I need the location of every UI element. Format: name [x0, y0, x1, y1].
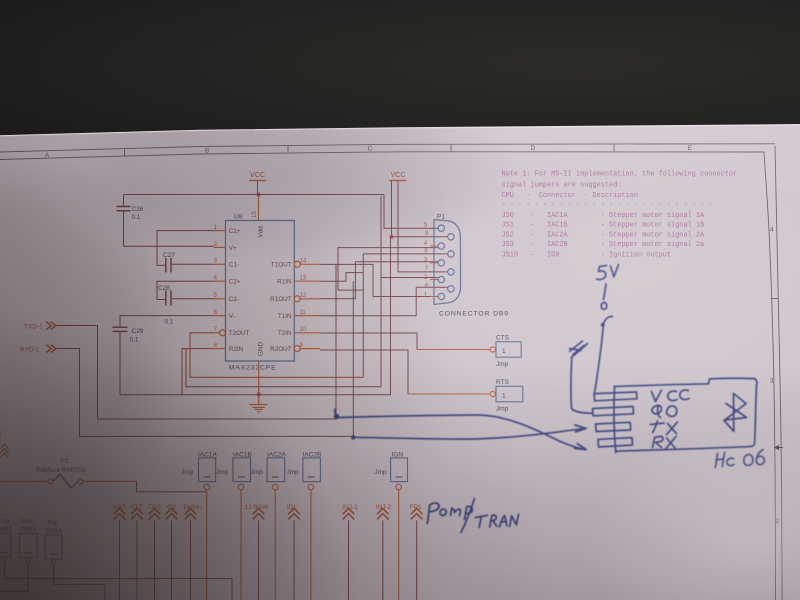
- handwritten wire from 5V: [604, 284, 606, 300]
- wire CTS: [417, 349, 490, 351]
- border frame right outer line: [775, 146, 782, 600]
- handwritten label TX inside module: [651, 421, 678, 435]
- note text line 1: [502, 171, 738, 179]
- chip pin labels left: [229, 228, 250, 353]
- pin 9 bubble and stub: [294, 346, 320, 352]
- frame right tick 2: [775, 447, 782, 449]
- note text line JS2: [502, 231, 705, 239]
- signal FP1: [410, 504, 423, 600]
- capacitor C27: [157, 252, 214, 273]
- wire T2IN to CTS net: [320, 333, 417, 350]
- pin 11 stub: [294, 315, 320, 317]
- frame letter B: [205, 148, 209, 155]
- border frame top line 2: [0, 152, 764, 160]
- wire VCC2 to pin7: [398, 181, 448, 272]
- jumper IAC2B: [287, 452, 322, 600]
- frame letter A: [45, 152, 50, 159]
- wire R1IN branch down to RXD net: [56, 281, 353, 436]
- handwritten wire blob to RX arrow (crossing): [339, 415, 587, 450]
- ground stub from chip: [258, 361, 260, 395]
- handwritten label VCC inside module: [652, 390, 690, 402]
- wire RTS: [408, 393, 490, 395]
- jumper IGN: [374, 452, 407, 600]
- pin 14 bubble and stub: [294, 261, 320, 267]
- handwritten bluetooth symbol: [724, 394, 747, 432]
- signal TachIn: [182, 504, 202, 600]
- handwritten junction dot on RXD wire: [351, 435, 355, 439]
- frame right tick 1: [771, 298, 778, 300]
- wire V- pin6 to C29: [120, 316, 214, 326]
- port (left edge, rotated label): [0, 430, 9, 458]
- frame letter E: [688, 145, 693, 152]
- signal CLT: [131, 504, 143, 600]
- border frame right inner line: [764, 152, 776, 600]
- jumper IAC2A: [251, 452, 287, 600]
- border frame top line 1: [0, 144, 775, 152]
- jumper SPR2: [0, 519, 232, 600]
- wire VCC rail: [124, 194, 385, 196]
- handwritten module HC06 box outline: [614, 378, 757, 451]
- power symbol VCC (left): [249, 172, 266, 195]
- capacitor C29: [113, 327, 144, 395]
- handwritten Pomp/TRAN annotation: [427, 499, 518, 533]
- frame number 2: [775, 518, 779, 525]
- jumper IAC1A: [181, 452, 217, 600]
- handwritten module left edge through pins: [614, 388, 616, 453]
- capacitor C28: [157, 285, 214, 326]
- junction dot at ground: [257, 393, 261, 397]
- wire C1+ pin1 net: [157, 231, 214, 266]
- frame number 4: [770, 227, 774, 234]
- chip pin labels right: [270, 262, 292, 353]
- wire rail drop to DB9 pin5: [384, 195, 438, 229]
- pin 13 stub: [294, 280, 320, 282]
- note text line 3: [502, 192, 638, 200]
- signal MAT: [113, 504, 126, 600]
- jumper CTS: [490, 335, 521, 369]
- wire C2+ pin4 net: [157, 281, 214, 299]
- jumper RTS: [490, 379, 523, 413]
- wire DB9 pin2 feed: [186, 196, 438, 387]
- handwritten label GND inside module: [652, 405, 677, 417]
- op-amp U8 MAX232 chip body: [226, 214, 295, 372]
- DB9 pin circles left column: [438, 225, 444, 300]
- frame letter D: [531, 145, 536, 152]
- note text line JS10: [502, 252, 672, 260]
- wire T2OUT loop below chip: [190, 333, 363, 378]
- wire DB9 pin1 feed: [373, 296, 438, 298]
- wire T1OUT branch down to TXD net: [56, 264, 336, 419]
- handwritten 5V label: [597, 265, 619, 280]
- wire R2IN loop below chip to RTS: [120, 237, 391, 395]
- handwritten wire dot to TX arrow (crossing): [356, 425, 587, 439]
- handwritten hook 2 with blob: [601, 316, 613, 326]
- DB9 pin short stubs: [430, 246, 438, 297]
- chip right pin numbers: [300, 259, 307, 350]
- chip left pin numbers: [214, 225, 218, 349]
- paper sheet: [0, 125, 800, 600]
- connector P1 DB9 body: [434, 214, 461, 305]
- jumper SPR4: [45, 521, 105, 600]
- signal INJ-2: [376, 504, 392, 600]
- signal 12 RAW: [245, 504, 270, 600]
- wire R1OUT staircase to DB9 pin3: [320, 262, 438, 299]
- DB9 pin number labels: [424, 223, 429, 299]
- note text line 2: [502, 182, 622, 190]
- junction dot pin9 net: [390, 235, 394, 239]
- DB9 pin circles right column: [448, 234, 454, 292]
- note text line JS0: [502, 212, 705, 220]
- port TXD-1: [24, 322, 56, 331]
- jumper IAC1B: [216, 452, 252, 600]
- frame tick between B and C: [287, 145, 289, 153]
- fuse F2 Polyfuse RXE050: [0, 458, 137, 488]
- port RXD-1: [20, 345, 56, 354]
- frame tick between A and B: [124, 149, 126, 157]
- wire T1IN to DB9 pin6: [320, 287, 448, 316]
- frame number 3: [770, 378, 774, 385]
- handwritten junction blob on TXD wire: [334, 409, 339, 419]
- wire T1OUT staircase to DB9 pin4: [320, 248, 438, 297]
- chip left pin stubs 1-6,8: [214, 231, 226, 349]
- handwritten antenna symbol: [570, 341, 588, 358]
- chip GND label: [258, 342, 265, 356]
- ground symbol: [249, 395, 267, 412]
- pin 12 bubble and stub: [294, 296, 320, 302]
- signal O2: [166, 504, 178, 600]
- handwritten module pin VCC: [594, 392, 637, 401]
- note text line JS3: [502, 241, 705, 249]
- handwritten wire down to module VCC pin: [594, 327, 603, 395]
- label CONNECTOR DB9: [439, 311, 509, 318]
- frame tick between C and D: [450, 144, 452, 151]
- capacitor C26: [117, 195, 144, 247]
- frame letter C: [368, 146, 373, 153]
- handwritten hook circle 1: [601, 303, 607, 310]
- wire F2 output: [137, 481, 207, 491]
- handwritten label RX inside module: [653, 437, 677, 450]
- handwritten wire antenna to GND pin: [571, 359, 593, 414]
- jumper SPR3: [0, 519, 37, 592]
- pin 7 stub with bubble: [214, 330, 226, 336]
- wire C26 to V+ pin2: [124, 245, 214, 247]
- frame pointer arrow at right border: [774, 445, 784, 450]
- power symbol VCC (DB9): [390, 172, 407, 181]
- pin 15 Vdd stub: [252, 196, 265, 238]
- wire R2OUT down from pin9 junction: [320, 350, 408, 394]
- pin 10 stub: [294, 332, 320, 334]
- handwritten label HC 06: [715, 450, 764, 468]
- signal IDL: [287, 504, 300, 600]
- wire R1IN staircase to DB9 pin8: [320, 254, 448, 377]
- note text line JS1: [502, 221, 705, 229]
- handwritten module pin TX: [596, 422, 631, 431]
- signal INJ-1: [342, 504, 358, 600]
- signal TPS: [148, 504, 161, 600]
- frame tick between D and E: [613, 144, 615, 151]
- junction dot at VCC rail: [257, 193, 261, 197]
- handwritten module pin RX: [598, 438, 633, 447]
- handwritten module pin GND: [593, 407, 634, 416]
- wire VCC2 to pin9 net: [392, 181, 448, 237]
- note text divider dashes: [502, 201, 713, 209]
